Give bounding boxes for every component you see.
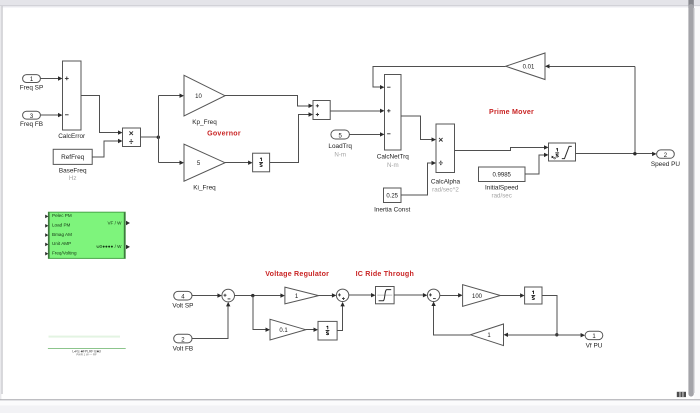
svg-text:rad/sec^2: rad/sec^2 <box>432 187 459 194</box>
wire Volt SP to sum <box>192 293 222 297</box>
outport 2 Speed PU <box>651 150 681 168</box>
gain feedback 1 (left pointing) <box>471 324 504 346</box>
wire Kp_Freq to sum <box>225 96 313 108</box>
svg-text:100: 100 <box>472 294 483 300</box>
integrator block 1/s (governor) <box>253 153 270 172</box>
svg-text:0.01: 0.01 <box>523 65 535 71</box>
svg-text:RefFreq: RefFreq <box>61 154 85 161</box>
bottom-right grid icon <box>677 392 686 397</box>
gain exciter 100 <box>463 285 501 307</box>
sum block governor torque <box>313 101 330 120</box>
svg-text:BaseFreq: BaseFreq <box>59 167 87 174</box>
svg-text:LoadTrq: LoadTrq <box>328 143 352 150</box>
wire 0.1 gain to integrator <box>306 328 318 332</box>
svg-text:0.9985: 0.9985 <box>493 173 512 179</box>
outport 1 Vf PU <box>585 331 603 349</box>
svg-text:Voltage Regulator: Voltage Regulator <box>265 270 329 278</box>
svg-text:0.1: 0.1 <box>279 328 288 334</box>
svg-text:Ki_Freq: Ki_Freq <box>193 184 216 191</box>
svg-text:w0●●●● / W: w0●●●● / W <box>96 244 122 249</box>
svg-text:VF / W: VF / W <box>107 220 122 225</box>
svg-text:Inertia Const: Inertia Const <box>374 206 410 213</box>
svg-text:10: 10 <box>195 94 202 100</box>
wire integrator to sum 2 bottom <box>337 302 345 331</box>
svg-text:N-m: N-m <box>387 162 399 169</box>
svg-text:Freq FB: Freq FB <box>20 121 43 128</box>
constant 0.25 Inertia Const <box>374 188 410 213</box>
wire divide output to branch node <box>141 94 185 165</box>
inport 1 Freq SP <box>20 75 43 92</box>
svg-text:CalcAlpha: CalcAlpha <box>431 179 461 186</box>
bottom status strip <box>0 399 700 400</box>
wire integrator to Speed PU <box>576 152 657 156</box>
integrator block 1/s (voltage regulator) <box>318 321 337 340</box>
svg-text:N-m: N-m <box>334 152 346 159</box>
wire integrator down to feedback branch <box>542 296 559 337</box>
integrator block 1/s (exciter) <box>525 287 542 304</box>
wire Volt FB to sum bottom <box>192 302 230 339</box>
svg-text:Pelec PM: Pelec PM <box>52 213 72 218</box>
left window edge <box>0 6 1 400</box>
saturation block <box>376 287 395 304</box>
wire sum to CalcNetTrq (+ input) <box>330 109 384 113</box>
wire integrator to sum <box>270 112 313 162</box>
gain damping 0.01 (left pointing) <box>506 53 545 80</box>
wire CalcAlpha to integrator <box>455 145 549 150</box>
gain Ki_Freq (5) <box>184 144 225 191</box>
svg-text:Kp_Freq: Kp_Freq <box>192 119 217 126</box>
svg-text:Load PM: Load PM <box>52 223 71 228</box>
divide block (x over divide) <box>123 128 141 147</box>
svg-text:InitialSpeed: InitialSpeed <box>485 185 519 192</box>
wire Freq SP to CalcError <box>40 76 62 80</box>
svg-text:Volt SP: Volt SP <box>172 303 193 310</box>
divide block CalcAlpha <box>431 124 461 194</box>
sum block CalcError <box>58 61 86 140</box>
wire 0.25 to CalcAlpha (/ input) <box>401 161 436 195</box>
wire Ki_Freq to integrator 1/s <box>225 161 253 165</box>
wire LoadTrq to CalcNetTrq (- input) <box>349 132 384 136</box>
wire CalcNetTrq to CalcAlpha (x input) <box>401 116 436 142</box>
top window bar <box>0 0 700 5</box>
inport 4 Volt SP <box>172 291 193 309</box>
svg-text:Prime Mover: Prime Mover <box>489 108 534 116</box>
svg-text:Hz: Hz <box>69 175 77 182</box>
wire gain 100 to integrator <box>500 293 524 297</box>
constant RefFreq BaseFreq <box>53 149 92 182</box>
svg-text:PWR 1 W — RF: PWR 1 W — RF <box>76 353 97 357</box>
svg-text:Vf PU: Vf PU <box>586 342 603 349</box>
wire speed branch to 0.01 gain <box>545 64 635 154</box>
gain VR integral (0.1) <box>270 319 306 340</box>
svg-text:CalcNetTrq: CalcNetTrq <box>377 153 410 160</box>
svg-text:Freq/Volting: Freq/Volting <box>52 250 77 255</box>
wire branch to Vf PU <box>557 333 585 337</box>
svg-text:0.25: 0.25 <box>386 194 398 200</box>
svg-text:Governor: Governor <box>207 129 241 137</box>
constant 0.9985 InitialSpeed <box>479 167 526 199</box>
svg-text:rad/sec: rad/sec <box>492 192 512 199</box>
svg-text:Volt FB: Volt FB <box>173 345 194 352</box>
wire 0.9985 to integrator x0 input <box>525 153 549 175</box>
sum circle exciter error <box>427 289 439 301</box>
sum circle regulator output <box>336 289 348 301</box>
sum block CalcNetTrq <box>377 75 410 170</box>
gain Kp_Freq (10) <box>184 75 225 126</box>
wire sum 2 to saturation <box>349 293 376 297</box>
svg-text:Unit AMP: Unit AMP <box>52 241 71 246</box>
gain VR proportional (1) <box>285 287 319 304</box>
wire P gain to sum 2 <box>319 293 337 297</box>
wire damping feedback to CalcNetTrq (- input) <box>373 66 506 89</box>
svg-text:Freq SP: Freq SP <box>20 84 43 91</box>
wire feedback gain to sum 3 bottom <box>431 302 470 335</box>
wire Freq FB to CalcError <box>40 113 62 117</box>
inport 2 Volt FB <box>173 334 194 352</box>
inport 5 LoadTrq <box>328 130 352 159</box>
sum circle voltage error <box>222 289 235 302</box>
inport 3 Freq FB <box>20 111 43 128</box>
wire branch to feedback gain 1 <box>504 333 557 337</box>
svg-text:Bmag AM: Bmag AM <box>52 232 72 237</box>
wire sum to branch and P gain <box>235 293 285 332</box>
svg-text:CalcError: CalcError <box>58 133 86 140</box>
right scrollbar <box>694 6 700 399</box>
wire sum 3 to gain 100 <box>440 293 463 297</box>
wire RefFreq to divide (/ input) <box>92 139 122 157</box>
wire CalcError to divide (x input) <box>81 96 123 135</box>
wire saturation to sum 3 <box>394 293 427 297</box>
svg-text:Speed PU: Speed PU <box>651 161 681 168</box>
svg-text:IC Ride Through: IC Ride Through <box>356 270 414 278</box>
integrator block 1/s with initial condition <box>549 143 576 161</box>
